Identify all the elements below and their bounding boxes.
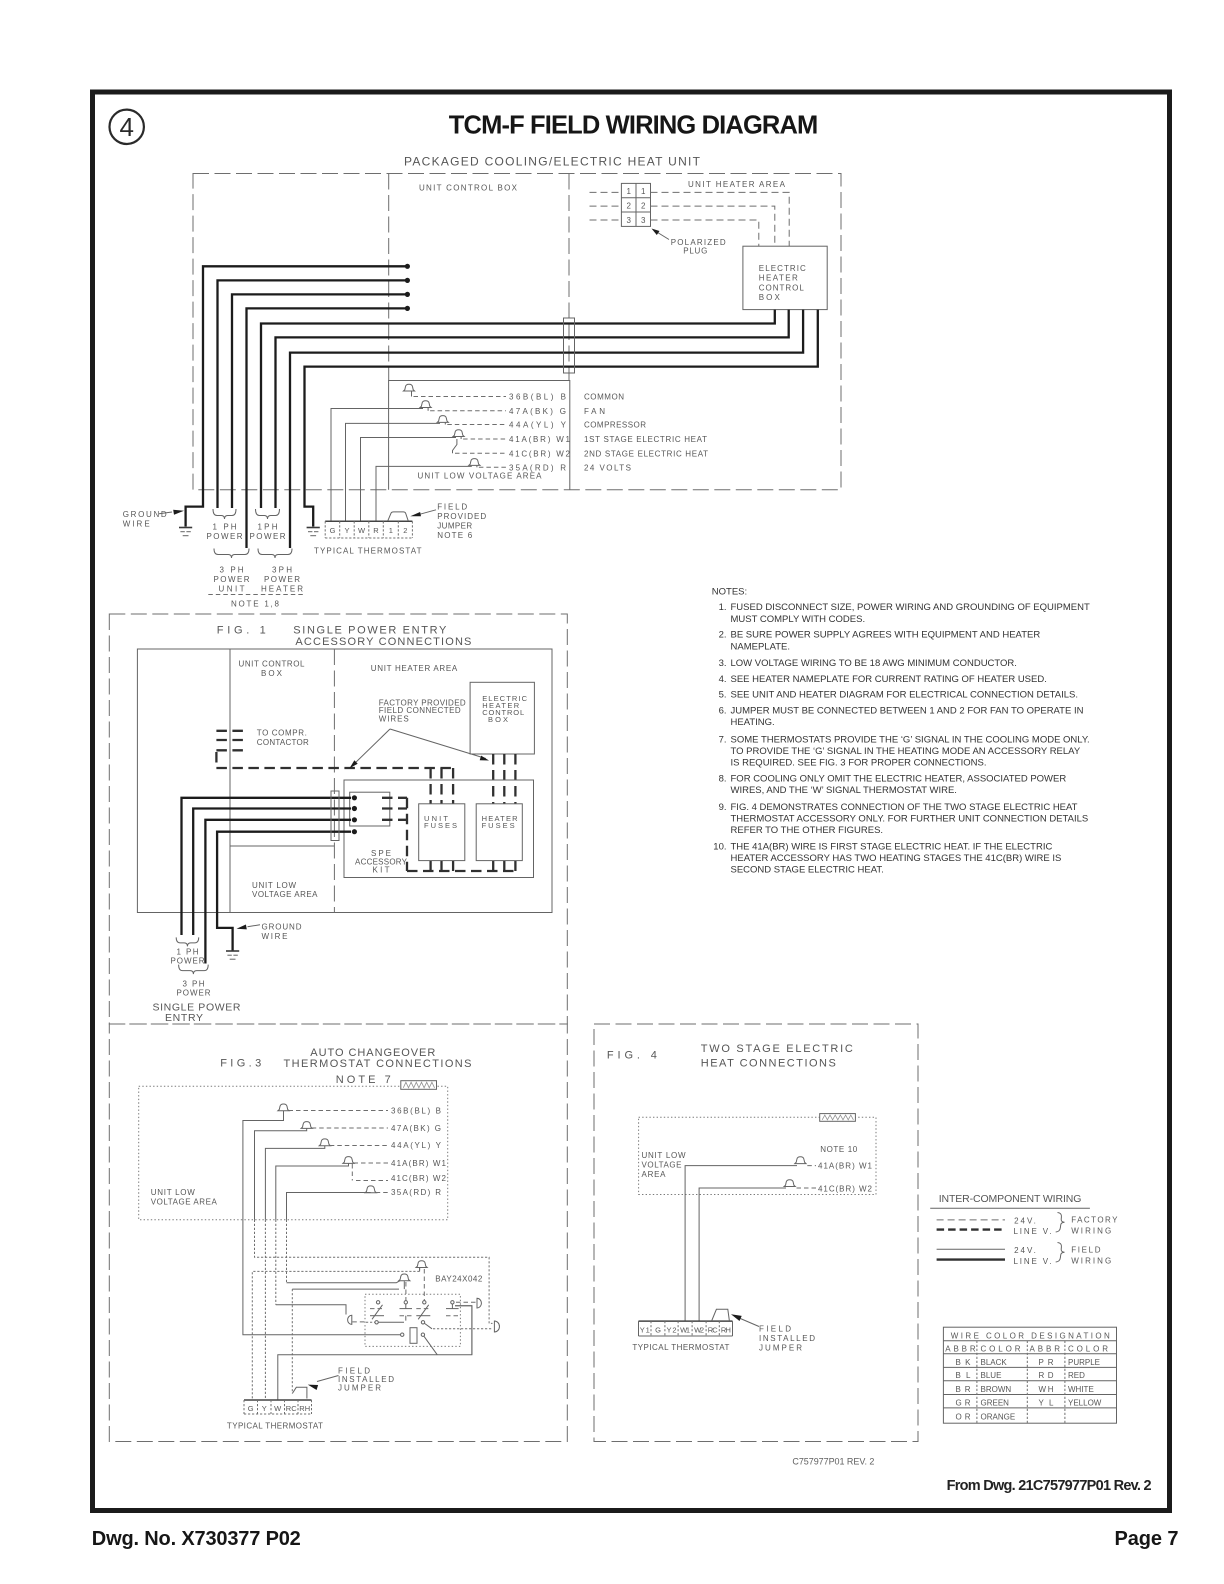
thermostat field wire R bbox=[376, 466, 472, 521]
svg-text:BL: BL bbox=[956, 1371, 972, 1380]
power wire 1 unit with ground bbox=[186, 266, 408, 526]
ground symbol unit bbox=[179, 527, 192, 529]
spade connector W1 first stage bbox=[453, 430, 571, 444]
svg-text:G: G bbox=[655, 1325, 661, 1334]
svg-text:41A(BR) W1: 41A(BR) W1 bbox=[391, 1159, 447, 1168]
fig3 jumper symbol bbox=[292, 1387, 307, 1398]
svg-text:41C(BR) W2: 41C(BR) W2 bbox=[391, 1174, 447, 1183]
svg-text:W2: W2 bbox=[694, 1325, 704, 1334]
svg-text:TCM-F FIELD WIRING DIAGRAM: TCM-F FIELD WIRING DIAGRAM bbox=[449, 112, 819, 140]
svg-text:VOLTAGE AREA: VOLTAGE AREA bbox=[252, 890, 318, 899]
svg-text:INSTALLED: INSTALLED bbox=[759, 1334, 815, 1343]
svg-text:BAY24X042: BAY24X042 bbox=[435, 1275, 483, 1284]
svg-text:47A(BK) G: 47A(BK) G bbox=[391, 1124, 441, 1133]
svg-text:REFER TO THE OTHER FIGURES.: REFER TO THE OTHER FIGURES. bbox=[731, 825, 884, 836]
svg-text:HEATER: HEATER bbox=[759, 274, 798, 283]
plug factory wire 3 to heater box bbox=[651, 220, 759, 246]
legend factory brace bbox=[1056, 1213, 1065, 1233]
svg-text:TYPICAL THERMOSTAT: TYPICAL THERMOSTAT bbox=[314, 547, 422, 556]
svg-text:HEATING.: HEATING. bbox=[731, 717, 775, 728]
fig3 wire W1 to wire nut bbox=[276, 1163, 349, 1219]
svg-text:ENTRY: ENTRY bbox=[165, 1012, 203, 1024]
svg-text:RC: RC bbox=[286, 1404, 298, 1413]
spe jumper stubs bbox=[382, 798, 407, 871]
fig3 wire B to relay coil bbox=[243, 1111, 400, 1335]
power feed 3 into spe bbox=[205, 820, 351, 964]
svg-text:VOLTAGE: VOLTAGE bbox=[642, 1161, 682, 1170]
power feed 4 ground wire bbox=[217, 832, 351, 951]
svg-text:BOX: BOX bbox=[759, 293, 781, 302]
relay right hook bbox=[455, 1306, 472, 1355]
svg-text:TO PROVIDE THE ‘G’ SIGNAL IN T: TO PROVIDE THE ‘G’ SIGNAL IN THE HEATING… bbox=[731, 746, 1081, 757]
power wire 6 heater bbox=[276, 310, 789, 508]
relay switch 4 bbox=[446, 1301, 459, 1316]
svg-text:GROUND: GROUND bbox=[262, 923, 302, 932]
spade connector Y compressor bbox=[437, 416, 566, 430]
ground symbol heater bbox=[307, 527, 320, 529]
svg-text:UNIT CONTROL: UNIT CONTROL bbox=[239, 659, 306, 668]
unit fuses box bbox=[419, 804, 465, 861]
svg-text:SINGLE POWER ENTRY: SINGLE POWER ENTRY bbox=[293, 625, 447, 637]
fig1 title bbox=[217, 625, 472, 649]
note 1 8 label bbox=[208, 594, 303, 596]
svg-text:COMPRESSOR: COMPRESSOR bbox=[584, 421, 646, 430]
power wire 3 unit bbox=[232, 294, 407, 508]
svg-text:BROWN: BROWN bbox=[981, 1385, 1012, 1394]
fuse bottom risers bbox=[431, 861, 516, 871]
svg-text:FOR COOLING ONLY OMIT THE ELEC: FOR COOLING ONLY OMIT THE ELECTRIC HEATE… bbox=[731, 774, 1067, 785]
spade connector G fan bbox=[420, 401, 566, 416]
fig1 unit outline bbox=[137, 649, 552, 913]
brace 3ph power unit bbox=[214, 549, 249, 559]
svg-text:HEATER ACCESSORY HAS TWO HEATI: HEATER ACCESSORY HAS TWO HEATING STAGES … bbox=[731, 853, 1062, 864]
svg-text:3: 3 bbox=[626, 216, 631, 225]
fig4 unit low voltage label bbox=[642, 1151, 686, 1179]
svg-text:44A(YL) Y: 44A(YL) Y bbox=[391, 1141, 442, 1150]
svg-text:SOME THERMOSTATS PROVIDE THE ‘: SOME THERMOSTATS PROVIDE THE ‘G’ SIGNAL … bbox=[731, 734, 1090, 745]
thermostat field wire Y bbox=[346, 423, 441, 521]
svg-text:24V.: 24V. bbox=[1014, 1216, 1036, 1225]
unit low voltage area box bbox=[389, 381, 570, 490]
svg-text:R: R bbox=[373, 526, 379, 535]
field provided jumper label bbox=[410, 503, 486, 541]
svg-text:Y: Y bbox=[344, 526, 349, 535]
svg-text:5.: 5. bbox=[719, 690, 727, 701]
svg-text:2.: 2. bbox=[719, 630, 727, 641]
svg-text:AREA: AREA bbox=[642, 1170, 667, 1179]
wire nut left bbox=[348, 1315, 352, 1324]
svg-text:POWER: POWER bbox=[207, 532, 243, 541]
svg-text:FIG. 4: FIG. 4 bbox=[607, 1050, 657, 1062]
svg-text:WIRES, AND THE ‘W’ SIGNAL THER: WIRES, AND THE ‘W’ SIGNAL THERMOSTAT WIR… bbox=[731, 785, 957, 796]
brace 1ph power unit bbox=[213, 509, 236, 519]
svg-text:36B(BL) B: 36B(BL) B bbox=[509, 393, 566, 402]
svg-text:JUMPER MUST BE CONNECTED BETWE: JUMPER MUST BE CONNECTED BETWEEN 1 AND 2… bbox=[731, 705, 1084, 716]
svg-text:W1: W1 bbox=[680, 1325, 690, 1334]
fig4 thermostat strip bbox=[639, 1321, 733, 1336]
unit fuses feeders bbox=[429, 768, 431, 804]
svg-text:WIRE: WIRE bbox=[123, 520, 150, 529]
svg-text:1PH: 1PH bbox=[258, 523, 278, 532]
svg-text:TYPICAL THERMOSTAT: TYPICAL THERMOSTAT bbox=[227, 1422, 323, 1431]
sheet number circle 4 bbox=[110, 110, 144, 144]
control box left boundary bbox=[388, 174, 390, 381]
svg-text:RD: RD bbox=[1039, 1371, 1054, 1380]
fig3 spade G bbox=[301, 1122, 441, 1133]
power wire 2 unit bbox=[218, 280, 408, 508]
factory field wires run bbox=[216, 767, 453, 769]
fig4 wire W1 bbox=[685, 1166, 797, 1322]
svg-text:3: 3 bbox=[641, 216, 646, 225]
typical thermostat strip bbox=[325, 521, 412, 538]
svg-text:2ND STAGE ELECTRIC HEAT: 2ND STAGE ELECTRIC HEAT bbox=[584, 449, 708, 458]
svg-text:1: 1 bbox=[626, 187, 631, 196]
svg-text:FAN: FAN bbox=[584, 407, 605, 416]
fig3 spade R bbox=[365, 1186, 441, 1197]
svg-text:3.: 3. bbox=[719, 658, 727, 669]
svg-text:FIG. 1: FIG. 1 bbox=[217, 625, 266, 637]
svg-text:4.: 4. bbox=[719, 674, 727, 685]
svg-text:NAMEPLATE.: NAMEPLATE. bbox=[731, 641, 790, 652]
thermostat field wire W bbox=[361, 438, 457, 522]
svg-text:KIT: KIT bbox=[373, 866, 390, 875]
power wire 4 unit bbox=[247, 308, 408, 548]
svg-text:JUMPER: JUMPER bbox=[437, 522, 472, 531]
svg-text:Y: Y bbox=[262, 1404, 267, 1413]
svg-text:36B(BL) B: 36B(BL) B bbox=[391, 1106, 441, 1115]
compressor contactor stubs bbox=[216, 731, 244, 768]
svg-text:Y1: Y1 bbox=[640, 1325, 650, 1334]
legend 24v field solid bbox=[937, 1248, 1005, 1250]
svg-text:THE 41A(BR) WIRE IS FIRST STAG: THE 41A(BR) WIRE IS FIRST STAGE ELECTRIC… bbox=[731, 841, 1053, 852]
unit control box divider bbox=[568, 174, 570, 381]
svg-text:TO COMPR.: TO COMPR. bbox=[257, 729, 307, 738]
svg-text:SECOND STAGE ELECTRIC HEAT.: SECOND STAGE ELECTRIC HEAT. bbox=[731, 865, 884, 876]
field provided jumper symbol bbox=[388, 512, 408, 521]
svg-text:POWER: POWER bbox=[214, 575, 250, 584]
fig4 wire W2 bbox=[699, 1188, 786, 1321]
svg-text:THERMOSTAT CONNECTIONS: THERMOSTAT CONNECTIONS bbox=[284, 1058, 472, 1070]
svg-text:2: 2 bbox=[641, 202, 646, 211]
electric heater control box bbox=[743, 246, 827, 309]
power feed 1 into spe bbox=[182, 798, 352, 935]
svg-text:41C(BR) W2: 41C(BR) W2 bbox=[509, 449, 571, 458]
svg-text:RH: RH bbox=[721, 1325, 731, 1334]
svg-text:1 PH: 1 PH bbox=[177, 948, 199, 957]
fig4 title bbox=[607, 1043, 853, 1070]
svg-text:ABBR: ABBR bbox=[945, 1344, 976, 1353]
svg-text:OR: OR bbox=[956, 1413, 971, 1422]
relay spade stems dashed bbox=[405, 1282, 407, 1301]
packaged unit dashed boundary bbox=[193, 174, 841, 490]
svg-text:8.: 8. bbox=[719, 774, 727, 785]
power wire 7 heater bbox=[290, 310, 803, 548]
spade connector B common bbox=[403, 384, 566, 401]
svg-text:35A(RD) R: 35A(RD) R bbox=[509, 463, 566, 472]
legend field brace bbox=[1056, 1243, 1065, 1263]
fig3 low voltage area box bbox=[139, 1086, 448, 1220]
wire color designation table bbox=[943, 1327, 1116, 1423]
svg-text:PROVIDED: PROVIDED bbox=[437, 512, 486, 521]
plug factory wire 2 to heater box bbox=[651, 206, 775, 246]
fig3 wire G to wire nut bbox=[255, 1128, 307, 1219]
svg-text:WH: WH bbox=[1039, 1385, 1054, 1394]
svg-text:Y2: Y2 bbox=[667, 1325, 677, 1334]
svg-text:3 PH: 3 PH bbox=[183, 980, 205, 989]
svg-text:COLOR: COLOR bbox=[981, 1344, 1021, 1353]
spe accessory kit box bbox=[344, 780, 534, 878]
spe bottom bus bbox=[407, 870, 515, 872]
svg-text:BLUE: BLUE bbox=[981, 1371, 1002, 1380]
svg-text:POWER: POWER bbox=[177, 989, 211, 998]
svg-text:1: 1 bbox=[641, 187, 646, 196]
svg-text:PACKAGED COOLING/ELECTRIC HEAT: PACKAGED COOLING/ELECTRIC HEAT UNIT bbox=[404, 154, 701, 168]
plug factory wire 1 to heater box bbox=[651, 192, 790, 246]
svg-text:HEAT CONNECTIONS: HEAT CONNECTIONS bbox=[701, 1058, 836, 1070]
svg-text:RH: RH bbox=[299, 1404, 310, 1413]
relay squiggle to nut bbox=[433, 1328, 492, 1330]
relay BAY24X042 box bbox=[365, 1294, 460, 1346]
spade connector R 24V bbox=[469, 459, 566, 473]
fig4 field installed jumper label bbox=[731, 1314, 815, 1352]
fig1 ground symbol bbox=[226, 950, 239, 952]
svg-text:ORANGE: ORANGE bbox=[981, 1413, 1016, 1422]
spe terminal block bbox=[350, 792, 390, 826]
wire nut right 2 bbox=[494, 1321, 499, 1332]
relay coil to W line bbox=[424, 1336, 437, 1354]
svg-text:CONTROL: CONTROL bbox=[759, 283, 805, 292]
svg-text:HEATER: HEATER bbox=[261, 585, 303, 594]
svg-text:UNIT LOW VOLTAGE AREA: UNIT LOW VOLTAGE AREA bbox=[418, 472, 543, 481]
svg-text:2: 2 bbox=[403, 526, 407, 535]
svg-text:WIRE COLOR DESIGNATION: WIRE COLOR DESIGNATION bbox=[951, 1331, 1110, 1340]
fig1 electric heater control box bbox=[470, 682, 534, 754]
legend 24v factory dashed bbox=[937, 1219, 1005, 1221]
svg-text:COMMON: COMMON bbox=[584, 393, 624, 402]
svg-text:PLUG: PLUG bbox=[683, 247, 707, 256]
power wire 5 heater bbox=[261, 310, 775, 508]
spe terminal dots bbox=[352, 795, 357, 800]
fig3 W cell wire bbox=[278, 1306, 472, 1400]
svg-text:1 PH: 1 PH bbox=[213, 523, 237, 532]
svg-text:ABBR: ABBR bbox=[1030, 1344, 1061, 1353]
svg-text:IS REQUIRED. SEE FIG. 3 FOR PR: IS REQUIRED. SEE FIG. 3 FOR PROPER CONNE… bbox=[731, 758, 987, 769]
svg-text:THERMOSTAT ACCESSORY ONLY. FOR: THERMOSTAT ACCESSORY ONLY. FOR FURTHER U… bbox=[731, 814, 1089, 825]
svg-text:MUST COMPLY WITH CODES.: MUST COMPLY WITH CODES. bbox=[731, 614, 866, 625]
svg-text:WIRING: WIRING bbox=[1071, 1257, 1111, 1266]
svg-text:ACCESSORY CONNECTIONS: ACCESSORY CONNECTIONS bbox=[295, 636, 471, 648]
fig3 spade Y bbox=[319, 1139, 441, 1150]
relay switch 3 bbox=[416, 1301, 432, 1329]
svg-text:41C(BR) W2: 41C(BR) W2 bbox=[818, 1184, 873, 1193]
svg-text:UNIT: UNIT bbox=[219, 585, 245, 594]
svg-text:G: G bbox=[248, 1404, 254, 1413]
ground wire label top bbox=[123, 510, 184, 529]
svg-text:WIRE: WIRE bbox=[262, 932, 288, 941]
svg-text:4: 4 bbox=[119, 112, 133, 142]
svg-text:WIRING: WIRING bbox=[1071, 1227, 1111, 1236]
svg-text:From Dwg. 21C757977P01 Rev. 2: From Dwg. 21C757977P01 Rev. 2 bbox=[947, 1478, 1152, 1494]
factory provided label with arrows bbox=[350, 699, 490, 769]
svg-text:JUMPER: JUMPER bbox=[759, 1344, 802, 1353]
fig3 spade W2 bbox=[352, 1164, 446, 1183]
svg-text:Page 7: Page 7 bbox=[1115, 1528, 1179, 1550]
fig3 dashed boundary bbox=[109, 1024, 567, 1442]
border frame bbox=[93, 92, 1170, 1511]
spe kit label bbox=[355, 849, 408, 875]
svg-text:UNIT HEATER AREA: UNIT HEATER AREA bbox=[371, 664, 458, 673]
svg-text:1: 1 bbox=[389, 526, 393, 535]
svg-text:Dwg. No. X730377 P02: Dwg. No. X730377 P02 bbox=[92, 1528, 301, 1550]
heater fuses box bbox=[476, 804, 522, 861]
svg-text:24V.: 24V. bbox=[1014, 1246, 1036, 1255]
svg-text:LINE V.: LINE V. bbox=[1014, 1257, 1052, 1266]
fig1 heater area divider bbox=[333, 649, 335, 913]
svg-text:1ST STAGE ELECTRIC HEAT: 1ST STAGE ELECTRIC HEAT bbox=[584, 435, 707, 444]
svg-text:2: 2 bbox=[626, 202, 631, 211]
svg-text:UNIT LOW: UNIT LOW bbox=[642, 1151, 686, 1160]
svg-text:RC: RC bbox=[708, 1325, 719, 1334]
fig1 dashed boundary bbox=[109, 614, 567, 1024]
svg-text:FIELD: FIELD bbox=[437, 503, 467, 512]
notes list bbox=[712, 587, 1090, 876]
fig3 RC wire bbox=[403, 1281, 405, 1289]
fig4 heater element symbol bbox=[820, 1114, 856, 1122]
svg-text:10.: 10. bbox=[713, 841, 726, 852]
svg-text:NOTE 10: NOTE 10 bbox=[820, 1145, 858, 1154]
svg-text:W: W bbox=[358, 526, 366, 535]
polarized plug P1 bbox=[621, 183, 650, 226]
legend linev field solid bbox=[937, 1258, 1005, 1260]
svg-text:BE SURE POWER SUPPLY AGREES WI: BE SURE POWER SUPPLY AGREES WITH EQUIPME… bbox=[731, 630, 1041, 641]
fig4 spade W2 bbox=[784, 1180, 872, 1194]
fig1 brace 3ph bbox=[179, 965, 209, 975]
fig3 thermostat strip bbox=[244, 1400, 312, 1414]
svg-text:FUSED DISCONNECT SIZE, POWER W: FUSED DISCONNECT SIZE, POWER WIRING AND … bbox=[731, 602, 1090, 613]
svg-text:35A(RD) R: 35A(RD) R bbox=[391, 1188, 441, 1197]
fig3 wire Y to thermostat bbox=[265, 1146, 324, 1220]
fig1 brace 1ph bbox=[176, 937, 199, 946]
fig1 low voltage area bbox=[230, 846, 334, 899]
svg-text:JUMPER: JUMPER bbox=[338, 1384, 381, 1393]
svg-text:POWER: POWER bbox=[171, 957, 205, 966]
fig1 crossing marker bbox=[331, 791, 339, 841]
brace 1ph power heater bbox=[256, 509, 280, 519]
svg-text:24 VOLTS: 24 VOLTS bbox=[584, 463, 631, 472]
svg-text:ELECTRIC: ELECTRIC bbox=[759, 264, 806, 273]
svg-text:LOW VOLTAGE WIRING TO BE 18 AW: LOW VOLTAGE WIRING TO BE 18 AWG MINIMUM … bbox=[731, 658, 1017, 669]
svg-text:W: W bbox=[274, 1404, 282, 1413]
wire nut right 1 bbox=[477, 1298, 481, 1308]
spade connector W2 second stage bbox=[453, 439, 571, 458]
svg-text:TYPICAL THERMOSTAT: TYPICAL THERMOSTAT bbox=[632, 1343, 729, 1352]
fig4 spade W1 bbox=[795, 1157, 873, 1171]
svg-text:C757977P01 REV. 2: C757977P01 REV. 2 bbox=[792, 1456, 874, 1466]
svg-text:SEE UNIT AND HEATER DIAGRAM FO: SEE UNIT AND HEATER DIAGRAM FOR ELECTRIC… bbox=[731, 690, 1079, 701]
power wire 8 heater with ground bbox=[305, 310, 818, 527]
svg-text:UNIT HEATER AREA: UNIT HEATER AREA bbox=[688, 180, 786, 189]
svg-text:1.: 1. bbox=[719, 602, 727, 613]
svg-text:BLACK: BLACK bbox=[981, 1358, 1008, 1367]
svg-text:44A(YL) Y: 44A(YL) Y bbox=[509, 421, 567, 430]
thermostat field wire G bbox=[331, 409, 423, 522]
fig4 jumper symbol bbox=[712, 1309, 730, 1321]
svg-text:NOTE 1,8: NOTE 1,8 bbox=[231, 600, 280, 609]
fig1 control box divider bbox=[229, 649, 231, 913]
svg-text:GR: GR bbox=[956, 1398, 971, 1407]
power feed 2 into spe bbox=[193, 809, 351, 936]
svg-text:7.: 7. bbox=[719, 734, 727, 745]
fig3 spade B bbox=[278, 1104, 441, 1115]
svg-text:YL: YL bbox=[1039, 1398, 1055, 1407]
svg-text:41A(BR) W1: 41A(BR) W1 bbox=[509, 435, 571, 444]
wire terminal dots bbox=[405, 264, 410, 269]
svg-text:FIELD: FIELD bbox=[759, 1325, 791, 1334]
svg-text:RED: RED bbox=[1068, 1371, 1085, 1380]
relay spade RC bbox=[399, 1274, 410, 1281]
svg-text:SEE HEATER NAMEPLATE FOR CURRE: SEE HEATER NAMEPLATE FOR CURRENT RATING … bbox=[731, 674, 1047, 685]
fig1 ground wire label bbox=[237, 923, 302, 942]
svg-text:UNIT LOW: UNIT LOW bbox=[252, 881, 296, 890]
svg-text:VOLTAGE AREA: VOLTAGE AREA bbox=[151, 1198, 218, 1207]
svg-text:6.: 6. bbox=[719, 705, 727, 716]
svg-text:41A(BR) W1: 41A(BR) W1 bbox=[818, 1161, 873, 1170]
brace 3ph power heater bbox=[258, 549, 292, 559]
svg-text:9.: 9. bbox=[719, 802, 727, 813]
svg-text:47A(BK) G: 47A(BK) G bbox=[509, 407, 566, 416]
svg-text:CONTACTOR: CONTACTOR bbox=[257, 738, 309, 747]
legend linev factory dashed bbox=[937, 1228, 1005, 1230]
svg-text:LINE V.: LINE V. bbox=[1014, 1227, 1052, 1236]
svg-text:WIRES: WIRES bbox=[379, 714, 409, 723]
svg-text:PURPLE: PURPLE bbox=[1068, 1358, 1100, 1367]
svg-text:BR: BR bbox=[956, 1385, 971, 1394]
svg-text:NOTE 7: NOTE 7 bbox=[336, 1074, 391, 1086]
fig3 heater element symbol bbox=[401, 1081, 437, 1090]
svg-text:FIG. 4 DEMONSTRATES CONNECTION: FIG. 4 DEMONSTRATES CONNECTION OF THE TW… bbox=[731, 802, 1078, 813]
svg-text:UNIT LOW: UNIT LOW bbox=[151, 1188, 195, 1197]
svg-text:COLOR: COLOR bbox=[1068, 1344, 1108, 1353]
svg-text:3PH: 3PH bbox=[272, 566, 292, 575]
plug factory wires left bbox=[590, 191, 622, 193]
fig4 dashed boundary bbox=[594, 1024, 918, 1442]
svg-text:FIG.3: FIG.3 bbox=[220, 1058, 261, 1070]
relay spade R bbox=[416, 1261, 427, 1268]
svg-text:GROUND: GROUND bbox=[123, 510, 167, 519]
svg-text:POWER: POWER bbox=[264, 575, 300, 584]
svg-text:G: G bbox=[330, 526, 336, 535]
svg-text:BOX: BOX bbox=[261, 669, 283, 678]
svg-text:FACTORY: FACTORY bbox=[1071, 1216, 1118, 1225]
relay switch 2 bbox=[400, 1301, 413, 1321]
svg-text:FIELD: FIELD bbox=[1071, 1246, 1101, 1255]
svg-text:NOTE 6: NOTE 6 bbox=[437, 531, 473, 540]
relay coil bbox=[401, 1328, 425, 1344]
fig4 low voltage area box bbox=[639, 1117, 876, 1194]
svg-text:3 PH: 3 PH bbox=[220, 566, 244, 575]
svg-text:NOTES:: NOTES: bbox=[712, 587, 747, 598]
svg-text:POWER: POWER bbox=[250, 532, 286, 541]
relay switch 1 bbox=[370, 1301, 404, 1324]
svg-text:PR: PR bbox=[1039, 1358, 1054, 1367]
fig3 G cell return wire bbox=[252, 1268, 419, 1401]
svg-text:BOX: BOX bbox=[488, 715, 508, 724]
svg-text:YELLOW: YELLOW bbox=[1068, 1398, 1102, 1407]
fig3 field installed jumper label bbox=[308, 1366, 394, 1392]
svg-text:WHITE: WHITE bbox=[1068, 1385, 1094, 1394]
wire crossing marker bbox=[564, 318, 575, 373]
fig3 wire R to spade bbox=[287, 1193, 371, 1220]
